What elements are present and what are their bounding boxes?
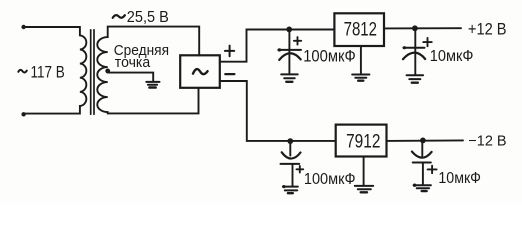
ground (C2) bbox=[407, 75, 424, 83]
regulator U2 7812 box bbox=[334, 13, 384, 46]
node junction bottom rail at C3 bbox=[287, 138, 293, 144]
svg-text:7912: 7912 bbox=[346, 130, 380, 152]
ground (C3) bbox=[282, 185, 298, 193]
bridge rectifier ac symbol bbox=[193, 69, 208, 74]
capacitor C1 100мкФ lead bbox=[288, 29, 290, 73]
capacitor C1 plus sign bbox=[294, 37, 301, 45]
capacitor C4 10мкФ lead bbox=[421, 140, 423, 156]
transformer T1 primary winding bbox=[24, 27, 87, 114]
capacitor C2 curved plate bbox=[403, 53, 425, 60]
label − (rectifier negative output) bbox=[225, 73, 234, 75]
regulator U3 ground pin bbox=[363, 157, 365, 186]
capacitor C3 ground lead bbox=[292, 164, 294, 186]
capacitor C4 plus sign bbox=[428, 166, 437, 174]
capacitor C2 plus sign bbox=[423, 38, 431, 46]
label Средняя точка bbox=[114, 43, 169, 71]
capacitor C1 curved plate bbox=[279, 53, 301, 60]
svg-text:100мкФ: 100мкФ bbox=[303, 48, 356, 66]
ac input terminal top bbox=[21, 25, 25, 29]
svg-text:10мкФ: 10мкФ bbox=[430, 48, 474, 65]
wire rectifier − output to 7912 input bbox=[220, 81, 336, 141]
ground (C1) bbox=[281, 74, 298, 81]
svg-text:точка: точка bbox=[115, 55, 151, 71]
label ~25,5 В bbox=[113, 9, 169, 26]
node junction bottom rail at C4 bbox=[420, 138, 426, 144]
regulator U2 ground pin bbox=[360, 46, 362, 74]
regulator U3 7912 box bbox=[336, 125, 387, 157]
capacitor C1 positive plate bbox=[278, 48, 301, 51]
wire 7812 output rail bbox=[384, 27, 461, 29]
capacitor C4 ground lead bbox=[422, 163, 424, 185]
ground (C4) bbox=[413, 184, 431, 192]
node junction top rail at C1 bbox=[286, 27, 292, 33]
capacitor C3 100мкФ lead bbox=[289, 141, 291, 156]
svg-text:117 В: 117 В bbox=[31, 63, 65, 81]
transformer T1 secondary winding bbox=[97, 27, 199, 114]
svg-text:100мкФ: 100мкФ bbox=[304, 171, 356, 188]
ground (center tap) bbox=[146, 82, 159, 88]
node junction top rail at C2 bbox=[412, 25, 418, 31]
ground (U2) bbox=[352, 75, 369, 81]
capacitor C3 positive plate bbox=[281, 163, 300, 165]
ac input terminal bottom bbox=[21, 112, 25, 116]
ground (U3) bbox=[355, 186, 373, 192]
svg-text:10мкФ: 10мкФ bbox=[438, 170, 481, 187]
capacitor C4 curved plate bbox=[412, 152, 432, 158]
svg-text:7812: 7812 bbox=[344, 19, 377, 41]
svg-text:+12 В: +12 В bbox=[468, 21, 507, 39]
wire 7912 output rail bbox=[387, 139, 464, 142]
bridge rectifier U1 box bbox=[180, 55, 220, 88]
wire center tap to ground bbox=[108, 73, 154, 82]
capacitor C4 positive plate bbox=[413, 162, 431, 164]
label + (rectifier positive output) bbox=[225, 46, 234, 57]
center tap node bbox=[105, 69, 110, 74]
capacitor C3 plus sign bbox=[297, 166, 304, 173]
capacitor C2 positive plate bbox=[403, 46, 425, 49]
capacitor C3 curved plate bbox=[282, 152, 301, 158]
svg-text:25,5 В: 25,5 В bbox=[127, 9, 169, 26]
transformer core bbox=[91, 30, 94, 115]
svg-text:−12 В: −12 В bbox=[468, 133, 506, 150]
capacitor C2 10мкФ lead bbox=[414, 28, 416, 74]
label ~117 В bbox=[18, 63, 65, 81]
wire rectifier + output to 7812 input bbox=[220, 30, 335, 62]
